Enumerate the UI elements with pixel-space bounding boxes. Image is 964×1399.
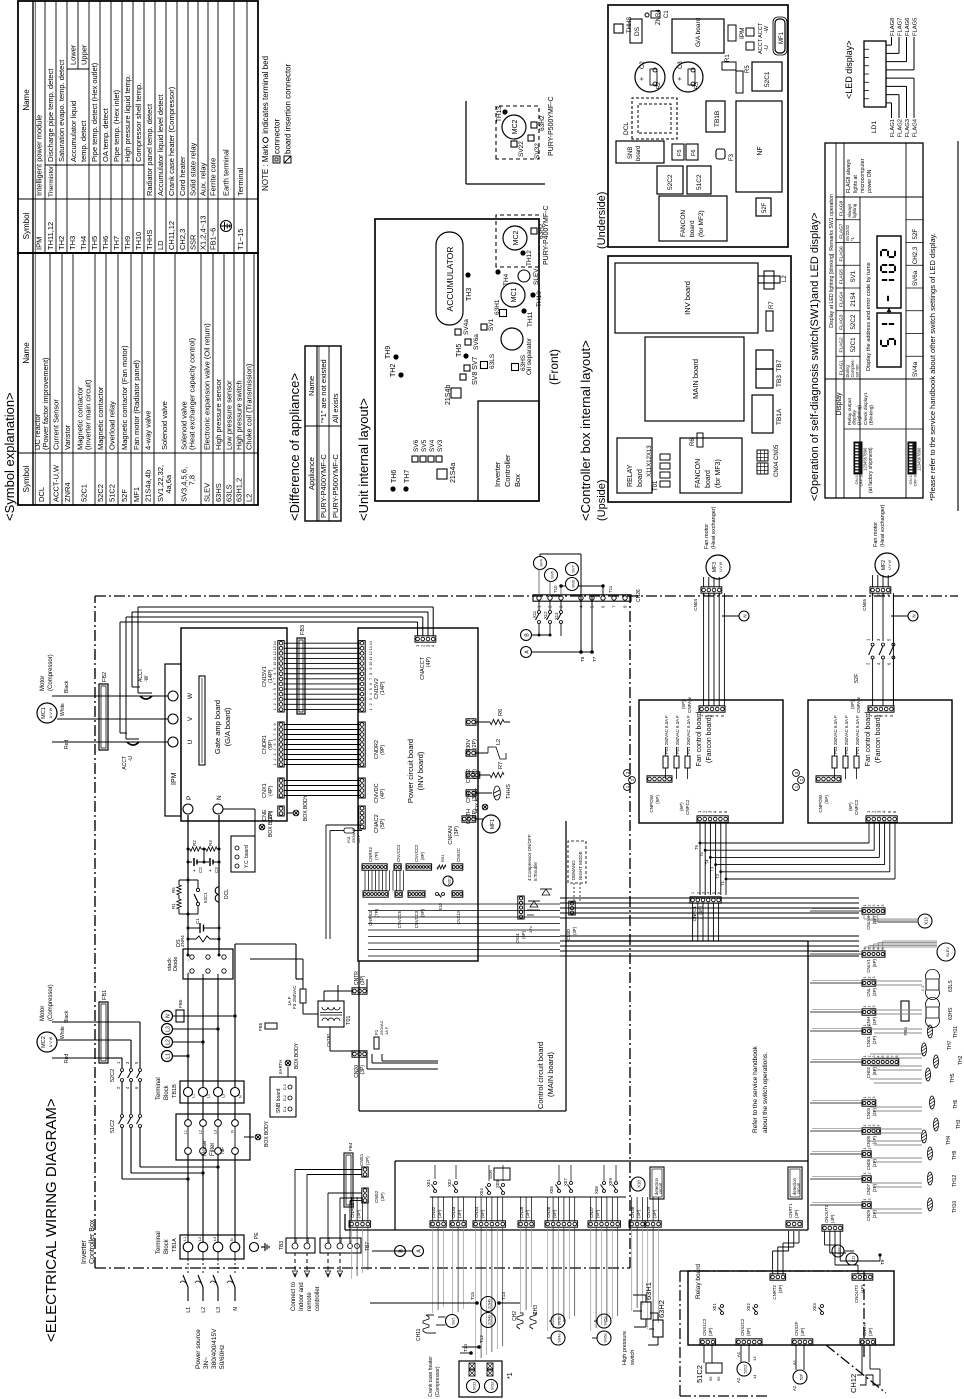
svg-text:T14: T14 [463, 1344, 468, 1352]
SNB board (underside) [616, 141, 664, 163]
diode stack DS (underside) [630, 19, 642, 43]
svg-text:X08: X08 [594, 1186, 599, 1194]
svg-text:X01: X01 [712, 1303, 717, 1311]
svg-text:F01 250VAC 6.3A F: F01 250VAC 6.3A F [686, 715, 691, 754]
terminal TB3 TB7 (upside) [756, 369, 773, 388]
svg-text:(5P): (5P) [380, 818, 386, 829]
svg-text:F03 250VAC 6.3A F: F03 250VAC 6.3A F [664, 715, 669, 754]
svg-text:4: 4 [877, 1056, 881, 1058]
connector CNFAN 5P fancon [868, 706, 894, 712]
svg-text:CNOUT1: CNOUT1 [824, 1204, 829, 1223]
svg-text:(3P): (3P) [572, 926, 577, 935]
phase circles L1 L2 L3 N [162, 1051, 173, 1062]
svg-text:50/60Hz: 50/60Hz [219, 1345, 226, 1369]
svg-text:(Heat exchanger): (Heat exchanger) [711, 506, 717, 549]
svg-text:4a,6a: 4a,6a [164, 474, 173, 502]
DC reactor DCL on N rail [215, 887, 219, 902]
connector CNAC1 (4P) [349, 1221, 371, 1227]
svg-text:1: 1 [116, 1061, 121, 1064]
seven-segment display 51 [877, 313, 901, 367]
svg-text:13: 13 [273, 646, 277, 650]
svg-text:X06: X06 [549, 1186, 554, 1194]
upside box [608, 256, 791, 502]
svg-text:Varistor: Varistor [63, 424, 72, 450]
svg-text:R5: R5 [171, 887, 176, 893]
svg-text:CNFAN: CNFAN [856, 697, 861, 713]
thermistor TH6 [390, 486, 395, 491]
svg-text:63H2: 63H2 [539, 115, 546, 131]
G/A board (underside) [672, 19, 724, 53]
svg-text:Display: Display [836, 392, 843, 415]
svg-text:TH5: TH5 [90, 236, 99, 250]
svg-text:FLAG3: FLAG3 [839, 314, 845, 330]
svg-text:Aux. relay: Aux. relay [199, 162, 208, 196]
inv board (upside) [615, 263, 758, 333]
circle terminal B top [521, 630, 532, 641]
svg-text:FLAG6: FLAG6 [905, 18, 911, 36]
svg-text:Radiator panel temp. detect: Radiator panel temp. detect [145, 103, 154, 196]
aux coil 52C1 circle [443, 876, 453, 886]
connector CN02 (8P) [862, 1059, 899, 1065]
svg-text:THHS: THHS [506, 784, 512, 799]
svg-text:FLAG6: FLAG6 [839, 246, 845, 262]
svg-text:6: 6 [717, 892, 721, 894]
svg-text:(3P): (3P) [868, 1327, 873, 1336]
svg-text:High pressure: High pressure [622, 1331, 628, 1365]
svg-text:1 2: 1 2 [921, 985, 925, 991]
svg-text:Motor: Motor [40, 676, 46, 691]
svg-text:TH6: TH6 [101, 236, 110, 250]
connector CNPOW 5P [816, 776, 841, 782]
demand night mode dashed box [568, 841, 586, 883]
valve SLEV [518, 270, 530, 282]
svg-text:X10: X10 [438, 902, 443, 910]
connector CN3D 3P [569, 901, 575, 915]
LED flag leader lines left FLAG1-4 [886, 102, 892, 104]
svg-text:X10: X10 [637, 1180, 642, 1188]
svg-text:U V W: U V W [719, 561, 723, 572]
connector CNFAN 3P inv [462, 816, 476, 822]
box body earth from CNE [287, 812, 293, 814]
svg-text:IPM: IPM [739, 27, 746, 39]
terminal dots T8 T7 [591, 595, 593, 652]
connector CN30V 2P [466, 719, 476, 725]
precharge resistors R1 R5 with contactor 52C1 [179, 913, 188, 915]
connector CNCH 3P [860, 1339, 876, 1345]
svg-text:DS: DS [634, 26, 641, 36]
wires T01 to CNTR and fuse [323, 991, 325, 1001]
svg-text:X1,2,4~13: X1,2,4~13 [199, 216, 208, 250]
solenoid valve SV7 [566, 563, 579, 576]
svg-text:Solenoid valve: Solenoid valve [160, 401, 169, 450]
connector CN34 (6P) [473, 1221, 505, 1227]
svg-text:52C2: 52C2 [667, 174, 674, 190]
svg-text:(for MF3): (for MF3) [715, 459, 722, 488]
svg-text:(6P): (6P) [679, 802, 684, 811]
svg-text:Oil separator: Oil separator [526, 337, 533, 375]
svg-text:SV6: SV6 [413, 439, 420, 452]
52C2 51C2 boxes (underside) [657, 166, 683, 194]
connector CNVCC4 2P [394, 864, 401, 870]
svg-text:BOX BODY: BOX BODY [303, 794, 309, 821]
choke coil L2 [476, 752, 488, 754]
svg-text:-W: -W [764, 25, 770, 33]
svg-text:3: 3 [273, 698, 277, 700]
svg-text:TH5: TH5 [456, 344, 463, 357]
ferrite core FB2 [99, 684, 108, 750]
svg-text:3: 3 [872, 948, 876, 950]
inverter controller box in layout [478, 401, 539, 501]
svg-text:FB1~6: FB1~6 [209, 228, 218, 250]
svg-text:CNRT1: CNRT1 [788, 1203, 793, 1218]
svg-text:(Fancon board): (Fancon board) [875, 715, 882, 763]
svg-text:T01: T01 [653, 480, 659, 491]
svg-text:INV board: INV board [683, 281, 692, 315]
svg-text:SV3a: SV3a [558, 1315, 562, 1325]
svg-text:T15: T15 [470, 1292, 475, 1300]
connector CNS1 2P [362, 1167, 368, 1177]
52C1 (underside) [752, 62, 782, 91]
NF noise filter (underside) [736, 101, 782, 192]
svg-text:F02 250VAC 6.3A F: F02 250VAC 6.3A F [844, 715, 849, 754]
svg-text:6: 6 [886, 662, 891, 665]
svg-text:T13: T13 [501, 1292, 506, 1300]
svg-text:3: 3 [876, 638, 881, 641]
wires CN26 dash-dot crossing [569, 601, 571, 619]
svg-text:TH7: TH7 [947, 1040, 953, 1050]
detection circuit 2 [788, 1167, 802, 1199]
svg-text:MC2: MC2 [41, 1036, 47, 1048]
svg-text:3: 3 [872, 1056, 876, 1058]
svg-text:TH7: TH7 [404, 470, 411, 483]
circle terminal A [413, 1246, 424, 1257]
aux relay X10 contact [436, 893, 439, 896]
connector CNRT1 3P [786, 1221, 802, 1227]
svg-text:2: 2 [867, 905, 871, 907]
connector CNX1 4P [278, 778, 284, 798]
connector CN35 (3P) [518, 1221, 534, 1227]
motor MC2 (compressor) [37, 1032, 57, 1052]
svg-text:TH2: TH2 [390, 364, 397, 377]
svg-text:6: 6 [369, 683, 373, 685]
svg-text:CNLV1: CNLV1 [866, 958, 871, 972]
svg-text:96: 96 [708, 1376, 713, 1381]
svg-text:1: 1 [863, 1199, 867, 1201]
svg-text:SV7: SV7 [571, 564, 576, 572]
current sensor ACCT-U [127, 742, 139, 745]
box *1 around SV22 SV32 [459, 1361, 502, 1397]
svg-text:board: board [689, 220, 696, 237]
svg-text:T10: T10 [553, 585, 558, 593]
svg-text:FB6: FB6 [903, 1027, 908, 1036]
svg-text:52C1: 52C1 [764, 71, 771, 87]
connector CN38 (3P) [629, 1221, 645, 1227]
svg-text:MC1: MC1 [41, 707, 47, 719]
svg-text:CN02: CN02 [866, 1066, 871, 1078]
svg-text:(14P): (14P) [268, 669, 274, 683]
svg-text:SSR: SSR [189, 234, 198, 250]
svg-text:21S4b: 21S4b [445, 385, 452, 405]
thermistor TH6 bottom [930, 1096, 935, 1109]
svg-text:Block: Block [164, 1238, 170, 1254]
heatsink bar [199, 676, 205, 765]
compressor MC2 dashed box P500 [496, 106, 539, 159]
svg-text:52F: 52F [854, 673, 860, 683]
power circuit board INV board [358, 628, 478, 961]
svg-text:Overload relay: Overload relay [108, 401, 117, 450]
svg-text:TH12: TH12 [526, 250, 533, 266]
wires CNCH to CH12 [861, 1345, 863, 1375]
svg-text:TB1B: TB1B [714, 111, 721, 127]
svg-text:Name: Name [22, 342, 31, 364]
svg-text:*1: *1 [850, 236, 855, 241]
svg-text:1: 1 [863, 977, 867, 979]
svg-text:TH9: TH9 [385, 346, 392, 359]
svg-text:TH5: TH5 [950, 1073, 956, 1083]
svg-text:board: board [244, 845, 250, 858]
svg-text:FB1: FB1 [102, 990, 108, 1000]
svg-text:(3P): (3P) [872, 1016, 877, 1025]
svg-text:TH10: TH10 [952, 1201, 958, 1213]
svg-text:52F: 52F [800, 1373, 804, 1380]
svg-text:2: 2 [696, 892, 700, 894]
svg-text:2: 2 [116, 1086, 121, 1089]
earth from NF [244, 1136, 254, 1138]
svg-text:SLEV: SLEV [533, 268, 540, 285]
svg-text:SV4a: SV4a [912, 361, 919, 377]
connector CNS2C2 5P [736, 1339, 762, 1345]
svg-text:ZNR4: ZNR4 [180, 935, 185, 947]
svg-text:L3: L3 [166, 1026, 172, 1032]
svg-text:F03 250VAC 6.3A F: F03 250VAC 6.3A F [833, 715, 838, 754]
connector CN07 (2P) [862, 1176, 871, 1182]
svg-text:C1: C1 [195, 918, 200, 924]
thermistor TH9 bottom [928, 1147, 933, 1160]
main board (upside) [645, 337, 744, 421]
solenoid SV3a SV4a [551, 1314, 565, 1328]
ferrite core FB6 [901, 1001, 909, 1021]
svg-text:TH3: TH3 [68, 236, 77, 250]
svg-text:(8P): (8P) [872, 1066, 877, 1075]
connector CNFAN 5P fancon [699, 706, 725, 712]
wire MC1 to IPM [52, 741, 168, 743]
terminal N [213, 804, 223, 814]
svg-text:R2: R2 [192, 840, 197, 846]
wires CNTR CN20 to main board [366, 1054, 368, 1069]
svg-text:1: 1 [863, 1025, 867, 1027]
svg-text:Upper: Upper [80, 44, 89, 65]
svg-text:Ferrite core: Ferrite core [209, 158, 218, 196]
svg-text:(5P): (5P) [850, 700, 855, 709]
svg-text:(5P): (5P) [824, 795, 829, 804]
svg-text:board: board [705, 470, 712, 488]
svg-text:X11: X11 [532, 610, 537, 618]
svg-text:1: 1 [863, 1125, 867, 1127]
svg-text:(4P): (4P) [426, 657, 432, 668]
svg-text:CNFC2: CNFC2 [854, 799, 859, 815]
svg-text:T1: T1 [720, 880, 725, 886]
svg-text:PURY-P500YMF-C: PURY-P500YMF-C [548, 96, 555, 156]
svg-text:(4P): (4P) [800, 1327, 805, 1336]
svg-text:connector: connector [273, 119, 282, 154]
svg-text:Earth terminal: Earth terminal [222, 149, 231, 196]
connector CN52C 3P [452, 864, 463, 870]
svg-text:1234567890: 1234567890 [863, 447, 868, 471]
svg-text:CN3D: CN3D [566, 929, 571, 940]
svg-text:380/400/415V: 380/400/415V [211, 1328, 218, 1369]
svg-text:Controller: Controller [503, 454, 512, 487]
svg-text:6: 6 [134, 1086, 139, 1089]
DC bus rails P N [187, 815, 189, 955]
pressure sensor 63LS [926, 990, 940, 1000]
svg-text:Pipe temp. (Hex inlet): Pipe temp. (Hex inlet) [112, 89, 121, 162]
svg-text:5: 5 [273, 688, 277, 690]
svg-text:power ON: power ON [867, 169, 873, 193]
contactor 52C1 contact on P rail [196, 902, 199, 905]
thermistors TH7 TH2 TH5 bottom [922, 1043, 927, 1056]
connector CNS2F 4P [792, 1339, 813, 1345]
fuse F3 [300, 989, 306, 1003]
wires relay coils [703, 1345, 705, 1363]
svg-text:A2: A2 [736, 1377, 741, 1383]
thermistor TH11 [521, 308, 526, 313]
svg-text:BOX BODY: BOX BODY [294, 1042, 300, 1069]
svg-text:T6: T6 [694, 844, 699, 850]
svg-text:TH7: TH7 [112, 236, 121, 250]
svg-text:51C2: 51C2 [695, 1365, 704, 1383]
svg-text:9: 9 [273, 724, 277, 726]
svg-text:(Fancon board): (Fancon board) [706, 715, 713, 763]
svg-text:R6: R6 [690, 438, 696, 446]
svg-text:21S4a,4b: 21S4a,4b [144, 470, 153, 502]
svg-text:Magnetic contactor: Magnetic contactor [96, 386, 105, 450]
compressor MC2 dashed box P400 [496, 215, 539, 267]
connector CN36 (6P) [545, 1221, 577, 1227]
svg-text:MC1: MC1 [511, 288, 518, 303]
svg-text:CN04: CN04 [693, 599, 698, 611]
svg-text:Red: Red [64, 1054, 70, 1063]
wires CNDR1 to CNDR2 [284, 764, 360, 766]
svg-text:BOX BODY: BOX BODY [264, 1120, 270, 1147]
svg-text:MC2: MC2 [512, 120, 519, 135]
svg-text:1: 1 [369, 708, 373, 710]
svg-text:5: 5 [886, 638, 891, 641]
connector CNOUT1 4P [822, 1225, 843, 1231]
svg-text:(5P): (5P) [746, 1327, 751, 1336]
svg-text:2: 2 [630, 778, 635, 781]
svg-text:3: 3 [872, 1097, 876, 1099]
svg-text:1: 1 [273, 708, 277, 710]
svg-text:(4P): (4P) [380, 788, 386, 799]
svg-text:R01: R01 [440, 854, 445, 862]
connector CNFC2 6P [697, 816, 728, 822]
svg-text:13: 13 [752, 1356, 757, 1361]
svg-text:CNPOW: CNPOW [649, 794, 654, 812]
svg-text:3: 3 [702, 892, 706, 894]
svg-text:controller: controller [315, 1286, 321, 1311]
pressure sensor 63HS [926, 1018, 940, 1028]
svg-text:temp. detect: temp. detect [79, 120, 88, 162]
wires CN20 down fuse [367, 1050, 377, 1052]
svg-text:R7: R7 [769, 301, 775, 309]
svg-text:3: 3 [872, 977, 876, 979]
svg-text:U V W: U V W [888, 559, 892, 570]
terminal strip CN26 [533, 595, 631, 601]
svg-text:FLAG1: FLAG1 [890, 119, 896, 137]
connector CN32 (3P) [430, 1221, 446, 1227]
svg-text:1: 1 [863, 1097, 867, 1099]
svg-text:CN38: CN38 [630, 1206, 635, 1218]
svg-text:(3P): (3P) [708, 1327, 713, 1336]
svg-text:MAIN board: MAIN board [691, 359, 700, 399]
valve 21S4a [437, 469, 447, 479]
connector CN33 (3P) [450, 1221, 466, 1227]
svg-text:Box: Box [513, 474, 522, 487]
circled terminals 1 2 3 [624, 784, 631, 791]
svg-text:1: 1 [863, 905, 867, 907]
svg-text:A: A [525, 650, 531, 654]
svg-text:TH3: TH3 [956, 1119, 962, 1129]
svg-text:Gate amp board: Gate amp board [213, 700, 222, 754]
svg-text:L1: L1 [192, 1094, 196, 1098]
choke L2 (upside) [764, 271, 774, 289]
resistor R1 R5 (underside) [722, 62, 736, 70]
thermistor TH12 bottom [928, 1172, 933, 1185]
svg-text:FLAG8: FLAG8 [890, 18, 896, 36]
svg-text:CNFAN: CNFAN [687, 697, 692, 713]
svg-text:DCL: DCL [224, 889, 230, 899]
svg-text:2A F: 2A F [356, 834, 361, 843]
fan motor MF2 [875, 553, 899, 577]
svg-text:(Front): (Front) [547, 349, 561, 385]
svg-text:CNRT2: CNRT2 [772, 1284, 777, 1299]
svg-text:FB4: FB4 [348, 1142, 353, 1151]
wires CNX1 to CNVDC [284, 795, 360, 797]
svg-text:2: 2 [867, 1125, 871, 1127]
svg-text:1: 1 [871, 594, 875, 596]
svg-text:<LED display>: <LED display> [844, 40, 854, 99]
svg-text:MC2: MC2 [513, 231, 520, 246]
svg-text:CNVCC3: CNVCC3 [414, 910, 419, 928]
connector CN09 (2P) [862, 1202, 871, 1208]
svg-text:FLAG8 always: FLAG8 always [846, 159, 852, 193]
terminal block TB7 [320, 1238, 361, 1253]
connector CN39 (3P) [645, 1221, 661, 1227]
svg-text:L2: L2 [245, 494, 254, 502]
connector CNFC2 6P [866, 816, 897, 822]
svg-text:D-3: D-3 [283, 1084, 287, 1090]
svg-text:F01 250VAC 6.3A F: F01 250VAC 6.3A F [855, 715, 860, 754]
svg-text:21S4a: 21S4a [450, 463, 457, 483]
connector CNS1C2 3P [700, 1339, 716, 1345]
solenoid SV32 with terminal blocks [485, 1380, 498, 1393]
svg-text:FB3: FB3 [300, 625, 306, 635]
table symbol-explanation right (IPM..T1-15) [18, 1, 258, 253]
svg-text:A2: A2 [792, 1385, 797, 1391]
svg-text:4: 4 [877, 1125, 881, 1127]
svg-text:L2: L2 [199, 1130, 203, 1134]
thermistor TH7 [403, 486, 408, 491]
svg-text:TH10: TH10 [134, 232, 143, 250]
svg-text:(9P): (9P) [380, 744, 386, 755]
thermistor TH5 [463, 353, 468, 358]
svg-text:D-2: D-2 [283, 1095, 287, 1101]
solenoid valves SV6 SV5 SV4 SV3 [412, 456, 418, 462]
svg-text:SV22: SV22 [518, 141, 525, 157]
svg-text:Display the address and error: Display the address and error code by tu… [866, 262, 872, 371]
svg-text:(2P): (2P) [872, 1035, 877, 1044]
svg-text:G/A board: G/A board [695, 17, 702, 47]
